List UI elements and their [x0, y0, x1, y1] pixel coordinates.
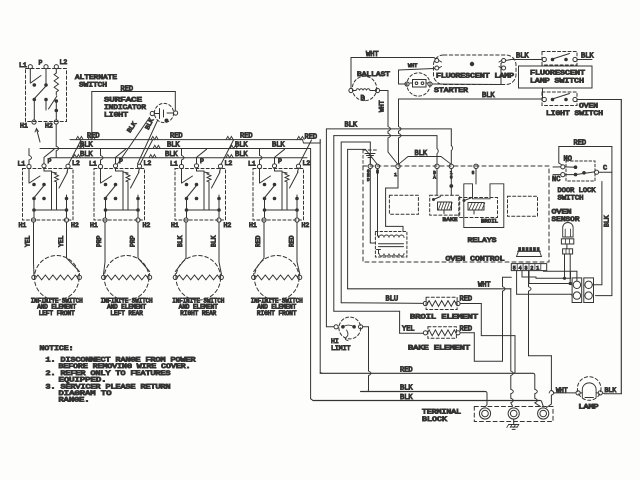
svg-text:LEFT FRONT: LEFT FRONT [39, 310, 75, 317]
svg-text:H1: H1 [90, 222, 98, 229]
ballast B1 [349, 76, 380, 101]
switch S2 feed diagonals from buses [101, 140, 153, 165]
svg-text:H2: H2 [143, 222, 151, 229]
svg-text:LAMP: LAMP [579, 404, 599, 411]
transformer T1 [375, 232, 407, 258]
svg-text:HI: HI [331, 338, 339, 345]
wire flu switch box to oven light switch [542, 88, 544, 97]
svg-text:BAKE ELEMENT: BAKE ELEMENT [408, 345, 470, 352]
svg-text:P: P [200, 158, 204, 165]
switch S4 contacts [260, 169, 298, 218]
svg-text:DOOR LOCK: DOOR LOCK [558, 187, 596, 194]
wire BLK starter junction to oven light switch [399, 92, 543, 100]
switch S4 terminal labels [248, 158, 310, 229]
bus BLK lower horizontal [50, 151, 307, 159]
wire BLK1 bus drop to bottom BLK [311, 149, 313, 401]
svg-text:SURFACE: SURFACE [104, 97, 142, 104]
svg-text:WHT: WHT [379, 100, 386, 112]
wire H1 lead (YEL) [25, 222, 34, 273]
ground symbol terminal block [507, 419, 519, 429]
svg-text:RED: RED [255, 235, 262, 247]
wire RED bus drop to bottom RED [320, 140, 322, 374]
wire BLK diagonal from light to switch 2 [118, 118, 150, 165]
svg-text:NO: NO [564, 156, 572, 164]
wire BLK lamp to right edge [602, 392, 621, 395]
switch S1 terminal labels [18, 158, 80, 229]
svg-text:RED: RED [121, 86, 134, 94]
svg-text:SWITCH: SWITCH [79, 82, 107, 89]
svg-text:WHT: WHT [408, 63, 417, 69]
svg-text:BALLAST: BALLAST [357, 71, 390, 78]
svg-text:BLU: BLU [386, 295, 399, 303]
switch S1 feed diagonals from buses [29, 140, 81, 165]
wire hi limit to BLK bottom [363, 327, 371, 392]
svg-text:LIGHT: LIGHT [104, 112, 128, 119]
svg-text:RANGE.: RANGE. [59, 397, 90, 404]
svg-text:BLK: BLK [605, 387, 617, 394]
svg-text:RIGHT FRONT: RIGHT FRONT [257, 310, 297, 317]
svg-text:LEFT REAR: LEFT REAR [110, 310, 143, 317]
svg-text:YEL: YEL [402, 326, 415, 334]
label OVEN SENSOR [552, 209, 580, 224]
svg-text:4: 4 [519, 265, 522, 271]
switch S1 pilot resistor [44, 168, 59, 210]
label TERMINAL BLOCK [422, 409, 461, 423]
svg-text:RED: RED [289, 235, 296, 247]
svg-text:LIGHT SWITCH: LIGHT SWITCH [546, 110, 603, 117]
switch S4 pilot resistor [275, 168, 290, 210]
switch S2 L2 contact arm [131, 168, 140, 218]
svg-text:BLK: BLK [167, 142, 180, 150]
svg-text:PRP: PRP [130, 235, 137, 247]
surface element E2 [102, 255, 152, 300]
wire BLK top feeder to relay 10 [326, 121, 451, 326]
svg-text:SENSOR: SENSOR [552, 216, 580, 223]
svg-text:YEL: YEL [58, 235, 65, 247]
wire N to transformer [378, 169, 379, 237]
wire RED bottom run [320, 367, 540, 407]
svg-text:1: 1 [394, 172, 397, 178]
infinite switch S4 box [253, 164, 304, 222]
wire BLK oven light switch to right edge [577, 100, 621, 394]
svg-text:L1: L1 [170, 161, 178, 168]
svg-text:RED: RED [460, 295, 473, 303]
svg-text:BLK: BLK [177, 235, 184, 247]
svg-text:L2: L2 [303, 160, 311, 167]
broil relay bracket [464, 169, 504, 228]
svg-text:BROIL: BROIL [481, 218, 498, 225]
surface element E1 [32, 255, 82, 300]
wire H2 lead (YEL) [58, 222, 79, 271]
label INFINITE SWITCH AND ELEMENT LEFT FRONT [31, 298, 83, 317]
bake relay K1 [430, 195, 460, 215]
switch S2 pilot resistor [116, 168, 131, 210]
svg-text:LIMIT: LIMIT [331, 345, 351, 352]
wire GND to transformer [370, 169, 375, 244]
switch S3 L2 contact arm [212, 168, 221, 218]
wire BLK lamp to fluorescent lamp switch [506, 53, 542, 61]
chassis ground symbol at control [365, 154, 375, 164]
wire WHT neutral to terminal block [348, 282, 514, 407]
connector teeth block [517, 247, 542, 256]
svg-text:OVEN: OVEN [552, 209, 572, 216]
svg-text:STARTER: STARTER [434, 87, 468, 94]
wire feeder 2 to relay 8A / bake [334, 136, 437, 334]
svg-text:L1: L1 [18, 161, 26, 168]
label SURFACE INDICATOR LIGHT [104, 97, 146, 119]
svg-text:H2: H2 [224, 222, 232, 229]
infinite switch S2 box [94, 164, 145, 222]
wire starter drop to control terminal 1 [399, 99, 402, 164]
svg-text:H1: H1 [20, 123, 28, 130]
wire connector strip 3 to terminal 3 [529, 271, 554, 408]
svg-text:5: 5 [513, 265, 516, 271]
terminal block [474, 407, 553, 422]
svg-text:NC: NC [552, 176, 560, 184]
wire BLK bottom run 1 [361, 385, 487, 407]
svg-text:BLK: BLK [482, 92, 495, 100]
wire broil to RED bottom [460, 304, 515, 374]
svg-text:BLK: BLK [235, 151, 248, 159]
broil relay K2 [459, 198, 498, 218]
svg-text:OVEN CONTROL: OVEN CONTROL [446, 256, 505, 263]
wire terminal BA down to bake relay [437, 136, 438, 196]
wire feeder WHT neutral [348, 149, 377, 288]
hi limit thermostat [331, 317, 363, 352]
wire H2 lead (RED) [289, 222, 300, 273]
fluorescent lamp switch [542, 52, 577, 66]
wire RED to surface indicator light [88, 86, 175, 140]
wire WHT ballast down to control [379, 91, 398, 165]
label INFINITE SWITCH AND ELEMENT LEFT REAR [101, 298, 153, 317]
infinite switch S1 box [23, 164, 74, 222]
svg-text:BLK: BLK [272, 142, 285, 150]
svg-text:BLK: BLK [345, 121, 358, 129]
wire WHT to lamp [549, 387, 576, 394]
svg-text:P: P [119, 158, 123, 165]
svg-text:BLK: BLK [165, 151, 178, 159]
svg-text:SWITCH: SWITCH [558, 195, 584, 202]
broil element [423, 297, 460, 309]
wire terminal 10 down to bake relay [449, 129, 453, 195]
svg-text:L2: L2 [144, 160, 152, 167]
connector block pair [572, 278, 593, 303]
switch S4 L2 contact arm [290, 168, 299, 218]
svg-text:RED: RED [170, 133, 183, 141]
wire connector row1 top link [571, 271, 577, 281]
svg-text:L2: L2 [60, 59, 68, 66]
svg-text:P: P [39, 60, 43, 67]
svg-text:H1: H1 [171, 222, 179, 229]
switch S2 terminal labels [89, 158, 151, 229]
svg-text:TERMINAL: TERMINAL [422, 409, 461, 416]
svg-text:RIGHT REAR: RIGHT REAR [180, 310, 216, 317]
oven control dashed box [363, 150, 549, 262]
svg-text:H2: H2 [302, 222, 310, 229]
wire terminal 1 step to transformer [386, 169, 403, 232]
svg-text:BROIL ELEMENT: BROIL ELEMENT [410, 314, 478, 321]
oven light switch [542, 92, 577, 106]
svg-text:H1: H1 [19, 222, 27, 229]
wire BLK vertical door lock to connector [596, 172, 612, 295]
svg-text:YEL: YEL [25, 235, 32, 247]
surface element E3 [173, 255, 223, 300]
wire H2 lead (BLK) [211, 222, 222, 273]
svg-text:H2: H2 [45, 123, 53, 130]
wire feeder 4 to broil BLU [341, 142, 423, 303]
svg-text:INDICATOR: INDICATOR [104, 104, 146, 111]
wire bake to connector strip [460, 277, 511, 361]
svg-text:FLUORESCENT LAMP: FLUORESCENT LAMP [436, 73, 514, 80]
wire H1 lead (RED) [254, 222, 264, 271]
oven lamp [576, 377, 602, 401]
wire BLK bridge terminal 1 to 10 [399, 150, 452, 164]
wire sensor legs [565, 254, 571, 284]
wire RED door lock feed [559, 140, 612, 173]
terminal labels L1 P L2 H1 H2 (alt switch) [19, 59, 67, 130]
svg-text:RELAYS: RELAYS [468, 237, 497, 244]
wire starter to lamp right [432, 63, 502, 85]
wire H1 lead (BLK) [175, 222, 186, 271]
wire strip to connector row2 [529, 271, 572, 285]
svg-text:RED: RED [87, 133, 100, 141]
wire BLK bottom run 2 [313, 394, 543, 406]
wire connector to NC riser [592, 182, 602, 285]
svg-text:BAKE: BAKE [443, 216, 459, 223]
switch S2 contacts [101, 169, 139, 218]
switch S1 L2 contact arm [59, 168, 68, 218]
wire H1 lead (PRP) [96, 222, 105, 273]
wire WHT ballast to lamp [351, 51, 436, 88]
wire WHT starter to lamp pin [399, 63, 435, 84]
svg-text:LAMP SWITCH: LAMP SWITCH [530, 78, 584, 85]
label FLUORESCENT LAMP SWITCH box [519, 66, 593, 88]
svg-text:L2: L2 [72, 160, 80, 167]
svg-text:L2: L2 [225, 160, 233, 167]
infinite switch S3 box [175, 164, 226, 222]
bake element [423, 327, 460, 339]
svg-text:ALTERNATE: ALTERNATE [75, 74, 117, 81]
label INFINITE SWITCH AND ELEMENT RIGHT REAR [172, 298, 224, 317]
notice text block [40, 345, 196, 404]
label INFINITE SWITCH AND ELEMENT RIGHT FRONT [251, 298, 303, 317]
svg-text:FLUORESCENT: FLUORESCENT [530, 70, 585, 77]
bus RED horizontal [70, 133, 320, 144]
svg-text:OVEN: OVEN [579, 103, 598, 110]
svg-text:L1: L1 [89, 161, 97, 168]
svg-text:BLK: BLK [516, 53, 529, 61]
connector plug strip 5-1 [511, 264, 546, 272]
svg-text:3: 3 [524, 265, 527, 271]
switch S4 feed diagonals from buses [260, 140, 312, 165]
svg-text:BLK: BLK [211, 235, 218, 247]
svg-text:2: 2 [530, 265, 533, 271]
svg-text:NOTICE:: NOTICE: [40, 345, 74, 352]
surface indicator light DS1 [150, 103, 178, 122]
svg-text:C: C [603, 165, 607, 173]
svg-text:P: P [48, 158, 52, 165]
terminal pin labels [367, 171, 475, 183]
svg-text:PRP: PRP [96, 235, 103, 247]
alternate switch SW-ALT [26, 65, 67, 125]
relay dashed box right (empty) [508, 196, 538, 216]
svg-text:1: 1 [536, 265, 539, 271]
svg-text:BLK: BLK [80, 151, 93, 159]
wire strip to connector row1 [522, 271, 571, 280]
surface element E4 [252, 255, 302, 300]
bus BLK upper horizontal [40, 142, 311, 150]
svg-text:H1: H1 [249, 222, 257, 229]
starter [405, 73, 432, 96]
svg-text:L1: L1 [19, 62, 27, 69]
switch S3 contacts [182, 169, 220, 218]
svg-text:RED: RED [240, 133, 253, 141]
label DOOR LOCK SWITCH [558, 187, 596, 202]
wire alt H2 down to bus [56, 124, 59, 157]
relay dashed box left (empty) [389, 195, 418, 214]
svg-text:BLOCK: BLOCK [422, 416, 447, 423]
oven sensor [561, 223, 573, 255]
svg-text:H2: H2 [71, 222, 79, 229]
door lock switch [552, 156, 612, 185]
wire BLK right of flu switch [577, 53, 594, 61]
svg-text:B: B [361, 95, 365, 102]
wire BLK diagonal 2 from light [138, 117, 158, 164]
switch S1 contacts [29, 169, 67, 218]
label OVEN LIGHT SWITCH [546, 103, 603, 118]
switch S3 pilot resistor [197, 168, 212, 210]
svg-text:BLK: BLK [604, 215, 611, 227]
svg-text:L1: L1 [248, 161, 256, 168]
switch S3 terminal labels [170, 158, 232, 229]
wire strip cell5 to connector lower [517, 271, 572, 296]
svg-text:P: P [278, 158, 282, 165]
wire arrow from H1 area [35, 129, 40, 143]
fluorescent lamp FL1 [434, 55, 517, 85]
control terminals row [368, 164, 478, 168]
switch S3 feed diagonals from buses [182, 140, 234, 165]
wire H2 lead (PRP) [130, 222, 150, 271]
